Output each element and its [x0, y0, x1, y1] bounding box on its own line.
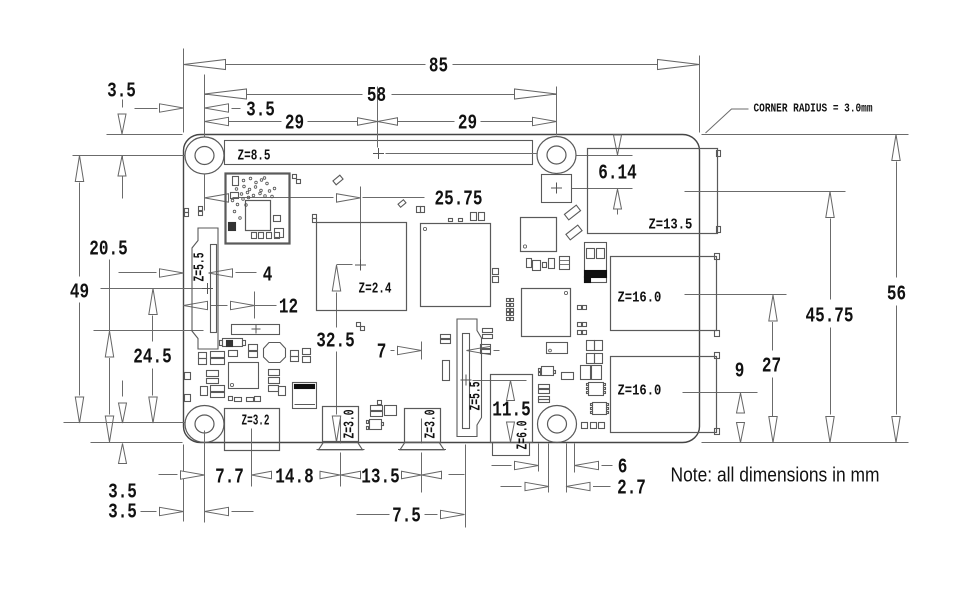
PCB board outline [184, 135, 700, 443]
dimension 29 left [205, 121, 282, 123]
DSI display connector Z=5.5 [192, 228, 218, 349]
svg-text:58: 58 [367, 84, 386, 108]
svg-text:7.5: 7.5 [392, 505, 421, 529]
extension line GPIO center top [377, 87, 379, 148]
extension line bottom-left hole bottom [204, 431, 206, 523]
svg-text:Z=16.0: Z=16.0 [618, 291, 662, 307]
short extension line connector2 center y350 [421, 342, 423, 360]
connector2 Z=3.0 [405, 409, 441, 443]
USB1 tab bottom [715, 331, 720, 337]
LAN chip U2 [421, 224, 491, 307]
dots below SoC [357, 323, 361, 327]
WiFi part rect 4 [275, 229, 284, 238]
pad row bottom right area [582, 423, 588, 429]
small chip with pins [593, 403, 607, 415]
extension line pad right dim 6 [574, 444, 576, 473]
GPIO centerline to top-right hole [386, 153, 537, 155]
DSI centerline extension left [101, 288, 205, 290]
svg-text:29: 29 [285, 112, 304, 136]
SoC centerline stub [337, 264, 353, 266]
svg-text:7: 7 [377, 341, 387, 365]
extension line drill left dim 2.7 [548, 444, 550, 493]
svg-text:Z=2.4: Z=2.4 [359, 282, 392, 298]
WiFi bottom pads [252, 233, 257, 239]
extension line SoC center vertical [360, 187, 362, 260]
CSI center mark [461, 375, 472, 386]
connector2 flange [400, 442, 444, 450]
WiFi part rect 3 [274, 216, 281, 222]
PoE header center mark [551, 183, 562, 194]
passive pair x416 [417, 207, 421, 213]
dimension 85 board width [184, 64, 426, 66]
Ethernet jack Z=13.5 [588, 149, 718, 234]
svg-text:CORNER RADIUS = 3.0mm: CORNER RADIUS = 3.0mm [754, 102, 873, 116]
CSI camera connector Z=5.5 [457, 319, 482, 437]
USB2 centerline extension right [683, 392, 758, 394]
USB1 centerline extension right [685, 294, 787, 296]
dimension 29 right [378, 121, 455, 123]
svg-text:20.5: 20.5 [89, 238, 127, 262]
SOT transistor bottom [370, 420, 382, 430]
Ethernet tab top [717, 151, 721, 157]
svg-text:27: 27 [762, 355, 781, 379]
svg-text:Z=5.5: Z=5.5 [469, 382, 485, 411]
svg-text:3.5: 3.5 [108, 501, 137, 525]
reference line for 20.5 [94, 330, 204, 332]
extension line top-right hole top [556, 87, 558, 136]
dimension 12 [184, 301, 208, 309]
part pair above LAN chip right [471, 213, 477, 221]
dimension 3.5 horizontal top [135, 108, 158, 110]
svg-text:29: 29 [458, 112, 477, 136]
board bottom edge extension left [91, 442, 183, 444]
dimension 49 [75, 156, 83, 182]
regulator chip [229, 363, 259, 389]
diagonal passive 2 [398, 200, 406, 208]
dimension 3.5 vertical bottom [122, 381, 124, 397]
svg-text:25.75: 25.75 [435, 188, 483, 212]
WiFi part rect 2 [231, 193, 239, 199]
GPIO header J8 [225, 141, 533, 165]
board top edge extension right [702, 134, 909, 136]
svg-text:85: 85 [429, 55, 448, 79]
mounting hole bottom-right drill [548, 415, 567, 433]
right column passives [587, 341, 595, 351]
svg-text:45.75: 45.75 [806, 305, 854, 329]
mounting hole top-left pad [185, 137, 224, 174]
tiny pair x199 [199, 207, 203, 211]
dimension 13.5 [341, 471, 361, 479]
svg-text:Z=3.0: Z=3.0 [343, 410, 359, 439]
extension line x254 for dim 12 [254, 292, 256, 319]
extension line board left edge bottom [183, 445, 185, 522]
svg-text:4: 4 [263, 264, 273, 288]
tiny pair left edge x184 [185, 209, 189, 213]
pin dots left of U4 [507, 299, 510, 302]
dimension 4 [119, 272, 157, 274]
extension line top-left hole bottom [204, 174, 206, 211]
WiFi module U5 shield outline [226, 174, 290, 244]
svg-text:49: 49 [70, 281, 89, 305]
svg-text:Z=8.5: Z=8.5 [238, 149, 271, 165]
extension line board left edge top [183, 49, 185, 133]
svg-text:6.14: 6.14 [598, 162, 636, 186]
camera centerline stub [473, 380, 527, 382]
svg-text:Z=5.5: Z=5.5 [193, 253, 209, 282]
mounting hole top-right drill [547, 146, 566, 164]
diagonal passive 1 [333, 175, 343, 185]
dimension 24.5 [149, 289, 157, 315]
USB2 tab bottom [715, 429, 720, 435]
connector1 Z=3.0 [323, 407, 359, 442]
extension line power connector center [251, 429, 253, 487]
dimension 58 hole spacing [205, 94, 363, 96]
connector1 flange [319, 442, 363, 450]
connector2 centerline inside [421, 419, 423, 444]
PoE header centerline stub right [572, 188, 633, 190]
WiFi part small rect [233, 177, 239, 186]
dimension 2.7 drill diameter [501, 486, 522, 488]
mounting hole top-left drill [195, 147, 214, 165]
mid board passives [547, 343, 568, 354]
chip U3 [521, 218, 557, 252]
USB1 tab top [715, 254, 720, 260]
svg-text:3.5: 3.5 [246, 99, 275, 123]
svg-text:Z=16.0: Z=16.0 [618, 384, 662, 400]
SoC U1 Z=2.4 [317, 223, 407, 311]
extension line board right edge top [699, 56, 701, 133]
AV jack Z=6.0 [491, 375, 533, 443]
USB connector 2 Z=16.0 [611, 357, 717, 433]
extension line camera connector center below [465, 445, 467, 528]
ethernet centerline extension right [685, 191, 846, 193]
svg-text:Z=3.2: Z=3.2 [242, 414, 270, 430]
pads right of LAN chip [493, 269, 499, 275]
svg-text:13.5: 13.5 [361, 466, 399, 490]
passive pairs power area [199, 353, 207, 359]
extension line pad left dim 6 [538, 444, 540, 472]
top-right hole centerline stub right [577, 155, 633, 157]
dimension 6 pad diameter [492, 465, 512, 467]
AV jack below board part [493, 443, 530, 456]
svg-text:2.7: 2.7 [617, 477, 646, 501]
extension line drill right dim 2.7 [566, 444, 568, 493]
corner radius leader line [706, 109, 749, 133]
passive pair right of module [293, 175, 297, 179]
tiny pair x313 [313, 215, 317, 219]
WiFi via dots [242, 179, 245, 182]
DSI center mark [202, 283, 213, 294]
svg-text:12: 12 [279, 296, 298, 320]
SOT23 [542, 367, 554, 376]
USB ESD black stripe [585, 271, 607, 278]
Ethernet tab bottom [717, 227, 721, 233]
svg-text:14.8: 14.8 [275, 466, 313, 490]
pin pairs right of U4 [578, 306, 582, 310]
svg-text:9: 9 [735, 360, 745, 384]
cap with tabs [223, 339, 243, 347]
fiducial component with center mark [232, 325, 280, 335]
SoC center mark [355, 260, 366, 271]
dimension 7.5 [357, 514, 390, 516]
extension line connector1 center below board [340, 453, 342, 487]
extension line connector2 center below board [421, 453, 423, 493]
svg-text:Note: all dimensions in mm: Note: all dimensions in mm [671, 465, 880, 487]
dots above LAN chip [449, 219, 453, 222]
mounting hole bottom-right pad [538, 406, 577, 443]
board top edge extension left [107, 134, 183, 136]
mounting hole bottom-left pad [185, 406, 224, 443]
board bottom edge extension right [702, 442, 909, 444]
passives row below U3 [527, 259, 532, 268]
GPIO center mark [373, 148, 384, 159]
USB2 tab top [715, 353, 720, 359]
SOIC8 chip [589, 383, 604, 396]
electrolytic capacitor [293, 383, 317, 409]
svg-text:Z=13.5: Z=13.5 [649, 218, 693, 234]
connector1 centerline inside [340, 419, 342, 444]
svg-text:24.5: 24.5 [133, 346, 171, 370]
svg-text:11.5: 11.5 [492, 399, 530, 423]
HDMI connector Z=3.2 [225, 409, 280, 451]
WiFi chip [246, 201, 271, 231]
DSI slot [211, 245, 217, 333]
mounting hole bottom-left drill [195, 415, 214, 433]
dimension 7.7 [159, 474, 178, 476]
dimension 6.14 [614, 135, 622, 155]
chip U4 [522, 289, 571, 337]
dimension 56 board height [892, 135, 900, 161]
svg-text:Z=3.0: Z=3.0 [424, 410, 440, 439]
extension line top-left hole top [204, 75, 206, 137]
svg-text:56: 56 [887, 283, 906, 307]
svg-text:Z=6.0: Z=6.0 [516, 421, 532, 450]
CSI slot [463, 334, 470, 429]
diagonal passives right of U3 [564, 205, 580, 220]
svg-text:32.5: 32.5 [316, 330, 354, 354]
bottom-left hole centerline extension left [64, 422, 185, 424]
mounting hole top-right pad [537, 137, 576, 174]
inductor octagon [264, 343, 286, 363]
svg-text:3.5: 3.5 [107, 80, 136, 104]
USB connector 1 Z=16.0 [611, 257, 717, 331]
PoE header [542, 175, 572, 203]
svg-text:7.7: 7.7 [215, 466, 244, 490]
USB ESD box [585, 243, 607, 283]
top-left hole centerline extension left [73, 155, 185, 157]
WiFi shield pad dark [229, 223, 236, 231]
